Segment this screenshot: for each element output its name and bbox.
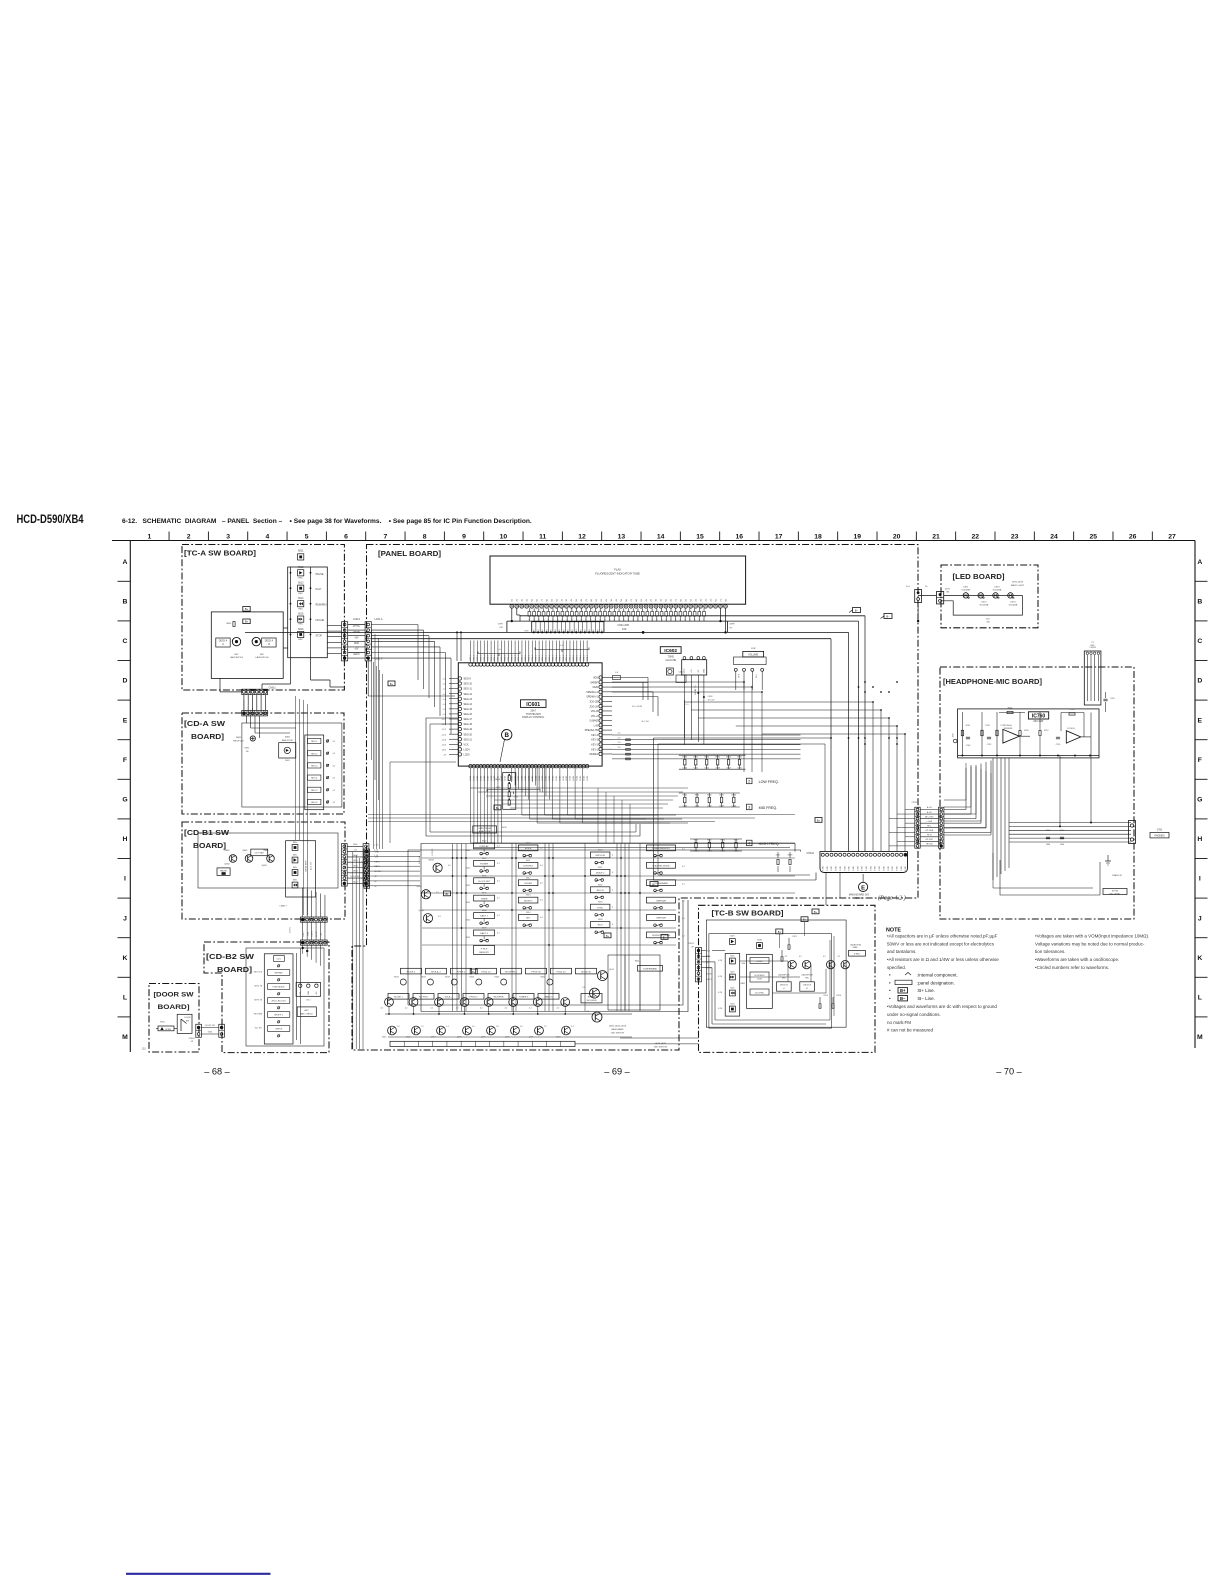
svg-text:TUNER 5: TUNER 5 <box>519 997 529 999</box>
switch CD-B1 cell <box>292 870 298 876</box>
svg-text:KEY-3: KEY-3 <box>591 739 598 742</box>
frame left border <box>129 541 131 1053</box>
svg-text:SRD-1: SRD-1 <box>549 655 551 661</box>
svg-text:4G: 4G <box>661 598 663 601</box>
wire loop around IC601 lower left inner <box>430 724 636 832</box>
svg-text:CH#: CH# <box>524 630 529 632</box>
svg-text:S612: S612 <box>298 567 304 569</box>
svg-text:FF/CUE: FF/CUE <box>316 619 325 622</box>
svg-text:17: 17 <box>775 534 783 541</box>
svg-text:KEY6: KEY6 <box>353 865 359 867</box>
svg-text:PAUSE: PAUSE <box>220 870 228 873</box>
wire DECK A box to switch column <box>283 627 288 629</box>
svg-text:DAILY 2: DAILY 2 <box>480 932 489 935</box>
boxed tag B- near rails right <box>853 608 861 613</box>
svg-text:P.B.A. 20: P.B.A. 20 <box>482 970 492 973</box>
svg-text:under no-signal conditions.: under no-signal conditions. <box>887 1012 941 1017</box>
svg-text:SRD-1: SRD-1 <box>491 655 493 661</box>
wires tca bottom into left bus <box>243 700 245 716</box>
svg-text:BOARD]: BOARD] <box>191 734 224 741</box>
svg-text:B−: B− <box>855 610 859 613</box>
svg-text:4.2: 4.2 <box>333 741 336 743</box>
svg-text:HP-GNT: HP-GNT <box>925 839 933 841</box>
svg-text:4.2: 4.2 <box>682 918 685 920</box>
switch S686 CD-A <box>326 776 328 778</box>
svg-text:1G: 1G <box>512 598 514 601</box>
wires TC-A to panel connector bus <box>348 624 365 626</box>
svg-text:[HEADPHONE-MIC BOARD]: [HEADPHONE-MIC BOARD] <box>943 679 1042 686</box>
svg-text:CD SYNC: CD SYNC <box>755 992 765 994</box>
vertical bus wires to CN641 <box>684 701 873 703</box>
small components below high freq network <box>777 860 779 865</box>
CD-B1 wire loop <box>198 833 338 888</box>
svg-text:S614: S614 <box>526 912 530 914</box>
panel bottom left connector column <box>364 849 370 888</box>
IC601 left pin stub wires <box>449 678 458 680</box>
svg-text:8G: 8G <box>725 598 727 601</box>
switch CD-B1 cell <box>292 857 298 863</box>
svg-text:4G: 4G <box>571 598 573 601</box>
svg-text:SEG-12: SEG-12 <box>464 693 473 696</box>
boxed waveform ref 3 <box>747 804 753 810</box>
svg-text:Q616: Q616 <box>406 1037 411 1039</box>
CD-A wire loop <box>242 723 342 807</box>
svg-text:KNA550 W: KNA550 W <box>1112 874 1122 877</box>
LED limiter resistor column <box>503 773 516 810</box>
grid row letters left <box>122 559 128 1041</box>
transistor Q616 mid row <box>533 998 542 1007</box>
svg-text:J: J <box>123 915 127 922</box>
svg-text:KEY-1: KEY-1 <box>591 748 598 751</box>
svg-text:ABC CHECK: ABC CHECK <box>301 1012 314 1015</box>
svg-text:[DOOR SW: [DOOR SW <box>154 992 195 999</box>
switch TC-B col1 cell <box>730 990 736 996</box>
svg-text:LED SWITCH: LED SWITCH <box>654 1047 668 1049</box>
svg-text:tion tolerances.: tion tolerances. <box>1035 949 1066 954</box>
svg-text:DECK B: DECK B <box>780 985 788 987</box>
svg-text:CN611: CN611 <box>269 687 277 690</box>
TC-B switch column 1 <box>725 954 740 1017</box>
emitter rail under mid transistors <box>385 1013 632 1015</box>
svg-text:RV760: RV760 <box>1112 891 1119 893</box>
svg-text:SRD-1: SRD-1 <box>566 655 568 661</box>
left bus vertical wires upper <box>295 696 297 840</box>
svg-text:B: B <box>123 599 128 606</box>
svg-text:LCD4: LCD4 <box>464 748 471 751</box>
junction dot LED5 pin <box>343 657 346 660</box>
key matrix column B labeled keys <box>518 845 538 851</box>
svg-text:LAUDSPOLE: LAUDSPOLE <box>230 656 244 659</box>
svg-text:7G: 7G <box>586 598 588 601</box>
svg-text:R764: R764 <box>1008 708 1013 710</box>
board outline TC-B SW BOARD <box>699 905 876 1052</box>
svg-text:S69x: S69x <box>293 867 297 869</box>
svg-text:CN94 1: CN94 1 <box>189 1038 197 1040</box>
svg-text:C761: C761 <box>1000 725 1005 727</box>
svg-text:L: L <box>123 995 127 1002</box>
svg-text:B−: B− <box>900 996 906 1001</box>
svg-text:KEY2: KEY2 <box>303 932 305 937</box>
svg-text:SRD-1: SRD-1 <box>580 655 582 661</box>
svg-text:MODE 2: MODE 2 <box>407 971 416 973</box>
IC602 block with pins <box>682 660 707 675</box>
svg-text:● REC: ● REC <box>756 960 763 963</box>
svg-text:R645: R645 <box>737 757 742 759</box>
svg-text:9G: 9G <box>596 598 598 601</box>
svg-text:5.6+ OH 93: 5.6+ OH 93 <box>632 706 643 708</box>
svg-text:POWER: POWER <box>480 864 489 866</box>
svg-text:SRD-1: SRD-1 <box>522 655 524 661</box>
svg-text:GND: GND <box>354 643 359 645</box>
svg-text:DECK A: DECK A <box>265 640 274 643</box>
svg-text:4G: 4G <box>527 598 529 601</box>
key switch colA DAILY 2 <box>480 939 483 942</box>
svg-text:4G: 4G <box>616 598 618 601</box>
svg-text:CHECK: CHECK <box>275 1029 283 1031</box>
svg-text:SW: SW <box>186 1020 189 1022</box>
switch S616 <box>298 631 304 637</box>
svg-text:LED 5: LED 5 <box>353 654 360 656</box>
svg-text:2G: 2G <box>561 598 563 601</box>
svg-text:CLOCK SET: CLOCK SET <box>478 881 491 883</box>
svg-text:2.0: 2.0 <box>520 1026 523 1028</box>
svg-text:MIC-GNT: MIC-GNT <box>925 816 934 818</box>
svg-text:R642: R642 <box>704 757 709 759</box>
svg-text:C765: C765 <box>1056 744 1061 746</box>
transistor Q472 TC-B <box>802 960 810 968</box>
svg-text:5.0MHZ: 5.0MHZ <box>589 720 598 723</box>
svg-text:LED5: LED5 <box>707 968 713 970</box>
connector LC615 panel side <box>365 622 371 661</box>
grid row letters right <box>1197 559 1203 1041</box>
svg-text:SRD-1: SRD-1 <box>508 655 510 661</box>
svg-text:REC-3: REC-3 <box>311 766 318 768</box>
switch CD-B1 cell <box>292 845 298 851</box>
svg-text:•All resistors are in Ω and 1/: •All resistors are in Ω and 1/4W or less… <box>887 957 999 962</box>
KEY wires from IC601 to right bus <box>612 734 801 736</box>
svg-text:S630: S630 <box>598 850 602 852</box>
svg-text:1000: 1000 <box>1046 844 1050 846</box>
svg-text:7G: 7G <box>720 598 722 601</box>
board outline CD-B1 SW BOARD <box>182 822 345 919</box>
connector C641-605 cell strip <box>532 622 604 633</box>
svg-text:5G: 5G <box>621 598 623 601</box>
small resistors on KEY lines <box>626 739 631 741</box>
svg-text:G: G <box>1197 797 1202 804</box>
svg-text:C766: C766 <box>1046 830 1051 832</box>
svg-text:S-RD: S-RD <box>870 866 872 871</box>
low frequency filter network <box>679 752 746 772</box>
svg-text:S69x: S69x <box>293 880 297 882</box>
svg-text:[CD-A SW: [CD-A SW <box>184 721 225 728</box>
svg-text:6G: 6G <box>626 598 628 601</box>
svg-text:8: 8 <box>423 534 427 541</box>
wire horizontal mid panel <box>390 761 456 763</box>
svg-text:S-RD: S-RD <box>857 866 859 871</box>
headphone extra components <box>1019 731 1021 736</box>
svg-text::B+ Line.: :B+ Line. <box>917 988 935 993</box>
svg-text:4.2: 4.2 <box>682 883 685 885</box>
svg-text:KEY8: KEY8 <box>353 871 359 873</box>
solder dots under connector strip <box>533 631 535 633</box>
svg-text:GHH: GHH <box>730 624 735 626</box>
svg-text:R644: R644 <box>726 757 731 759</box>
bus rail lower y632.5 with end posts <box>506 621 508 632</box>
svg-text:S-RD: S-RD <box>883 866 885 871</box>
svg-text:Q615: Q615 <box>382 1037 387 1039</box>
svg-text:Q604: Q604 <box>428 860 434 862</box>
svg-text:3G: 3G <box>566 598 568 601</box>
svg-text:REC-B: REC-B <box>597 890 604 892</box>
svg-text:S.B.A. 2: S.B.A. 2 <box>444 996 453 999</box>
wires door to panel connector <box>201 1027 218 1029</box>
svg-text:22: 22 <box>972 534 980 541</box>
svg-text:S47x: S47x <box>730 1004 734 1006</box>
transistor Q620 bottom row <box>388 1026 397 1035</box>
svg-text:MIC: MIC <box>953 733 955 737</box>
svg-text:S69x: S69x <box>293 842 297 844</box>
svg-text:MODE 40: MODE 40 <box>581 971 591 973</box>
switch TC-B col1 cell <box>730 974 736 980</box>
FL tube pin stubs and labels <box>528 608 530 611</box>
svg-text:SEG-17: SEG-17 <box>464 718 473 721</box>
svg-text:S47x: S47x <box>730 972 734 974</box>
svg-text:REC-1: REC-1 <box>311 741 318 743</box>
IC602 output wires down <box>683 675 685 738</box>
svg-text:2G: 2G <box>651 598 653 601</box>
transistor Q612 mid row <box>435 998 444 1007</box>
svg-text:R643: R643 <box>719 795 724 797</box>
switch S687 CD-A <box>326 789 328 791</box>
wires CD-B2 top connectors <box>302 945 304 954</box>
svg-text:# can not be measured: # can not be measured <box>887 1028 934 1033</box>
svg-text:SHUFF 1: SHUFF 1 <box>274 1015 284 1017</box>
FL pins right stubs to rail <box>720 608 722 621</box>
svg-text:B+: B+ <box>245 607 249 611</box>
board outline HEADPHONE-MIC BOARD <box>940 667 1134 919</box>
svg-text:HCD-D590/XB4: HCD-D590/XB4 <box>17 512 84 526</box>
svg-text:2: 2 <box>187 534 191 541</box>
svg-text:DOOR: DOOR <box>185 1017 192 1019</box>
svg-text:SEG-21: SEG-21 <box>464 738 473 741</box>
svg-text:REC: REC <box>298 577 303 579</box>
svg-text:– 68 –: – 68 – <box>204 1067 230 1077</box>
svg-text:L 5HB: L 5HB <box>927 821 933 823</box>
svg-text:B+: B+ <box>496 807 500 810</box>
switch S942 CD-B2 <box>268 970 290 976</box>
svg-text:P.B.A. 40: P.B.A. 40 <box>557 970 567 973</box>
svg-text:TONE: TONE <box>668 657 675 659</box>
svg-text:G: G <box>122 797 127 804</box>
svg-text:KL5426B: KL5426B <box>993 590 1002 592</box>
svg-text:LED6: LED6 <box>707 973 713 975</box>
svg-text:CN751: CN751 <box>912 802 920 804</box>
svg-text:IC602: IC602 <box>664 648 677 654</box>
CD-B2 inner wire rect <box>246 948 324 1046</box>
svg-text:[TC-B SW BOARD]: [TC-B SW BOARD] <box>712 911 784 918</box>
svg-text:1.2: 1.2 <box>421 1026 424 1028</box>
SVR volume block <box>743 651 764 657</box>
svg-text:D673: D673 <box>995 587 1001 589</box>
svg-text:SEG-10: SEG-10 <box>464 683 473 686</box>
key switch colA DISPLAY <box>480 852 483 855</box>
svg-text:C767: C767 <box>1060 830 1065 832</box>
svg-text:A: A <box>123 559 128 566</box>
svg-text:KEY1: KEY1 <box>707 979 713 981</box>
key switch colA TIMER <box>480 905 483 908</box>
svg-text:SEG-20: SEG-20 <box>464 733 473 736</box>
long left vertical bus wires <box>352 852 354 1049</box>
transistor Q627 bottom row <box>562 1026 571 1035</box>
wire loop around filter networks inner <box>657 744 659 875</box>
svg-text:LED1: LED1 <box>570 776 572 781</box>
svg-text:R641: R641 <box>695 795 700 797</box>
svg-text:4.2: 4.2 <box>497 880 500 882</box>
wires matrix left connector stubs <box>370 851 420 853</box>
svg-text:Q621: Q621 <box>529 1037 534 1039</box>
connector CD-B1 right pair <box>341 844 347 886</box>
svg-text:1: 1 <box>148 534 152 541</box>
svg-text:6G: 6G <box>671 598 673 601</box>
switch TC-B col1 cell <box>730 958 736 964</box>
svg-text::internal component.: :internal component. <box>917 973 958 978</box>
svg-text:D671: D671 <box>963 587 969 589</box>
FL pins 1-2 left stubs to rail <box>511 608 513 621</box>
op-amp IC760a <box>1003 729 1019 743</box>
svg-text:4.2: 4.2 <box>505 1008 508 1010</box>
svg-text:C643: C643 <box>715 768 720 770</box>
LED D671 <box>963 593 968 598</box>
transistor Q624 bottom row <box>487 1026 496 1035</box>
svg-text:1G: 1G <box>601 598 603 601</box>
svg-text:LAUDSPOLE: LAUDSPOLE <box>801 974 813 977</box>
connector CN681 CD-A top <box>242 711 268 716</box>
switch S941 CD-B2 <box>274 956 285 962</box>
wires bus verticals to panel edge connector <box>905 809 915 811</box>
svg-text:S-RD: S-RD <box>905 866 907 871</box>
svg-text:LED2: LED2 <box>353 855 359 857</box>
DECK B boxes <box>777 982 792 991</box>
svg-text:L: L <box>1198 995 1202 1002</box>
svg-text:GND: GND <box>208 1031 213 1033</box>
svg-text:LC61 A: LC61 A <box>375 618 383 621</box>
wires panel left vertical bundle <box>373 662 375 849</box>
svg-text:VOL-A: VOL-A <box>591 715 599 718</box>
svg-text:S69x: S69x <box>293 855 297 857</box>
svg-text:4.2: 4.2 <box>405 1008 408 1010</box>
jack MIC B <box>252 637 260 645</box>
svg-text:B: B <box>1197 599 1202 606</box>
svg-text:LED1: LED1 <box>563 776 565 781</box>
svg-text:STOP: STOP <box>316 635 323 638</box>
svg-text:NJM4558: NJM4558 <box>1004 728 1013 730</box>
boxed tag B- below loop <box>650 882 658 887</box>
svg-text:S632: S632 <box>598 884 602 886</box>
TC-B HI SPEED DUB box <box>750 972 769 982</box>
headphone amp outputs down to jack bus <box>1090 737 1092 823</box>
svg-text:LED1: LED1 <box>566 776 568 781</box>
svg-text:K: K <box>1197 955 1202 962</box>
svg-text:GND: GND <box>353 844 358 846</box>
svg-text:SPECTRUM: SPECTRUM <box>478 828 490 830</box>
svg-text:B+: B+ <box>472 971 476 974</box>
door open label box <box>158 1026 174 1031</box>
svg-text:GND: GND <box>308 990 310 995</box>
svg-text:•Circled numbers refer to wave: •Circled numbers refer to waveforms. <box>1035 965 1109 970</box>
svg-text:•Voltages are taken with a VOM: •Voltages are taken with a VOM(Input imp… <box>1035 934 1149 939</box>
svg-text:WTYA: WTYA <box>353 625 360 628</box>
wires IC601 bottom pins down <box>470 768 472 788</box>
board outline DOOR SW BOARD <box>149 984 199 1053</box>
lower matrix labeled boxes row1 <box>388 994 409 1000</box>
vertical stubs routing to matrix <box>597 788 599 843</box>
svg-text:MIC LEVEL: MIC LEVEL <box>1110 894 1122 896</box>
svg-text:CN68 7: CN68 7 <box>279 906 287 908</box>
svg-text:-C: -C <box>222 644 225 646</box>
svg-text:6G: 6G <box>581 598 583 601</box>
svg-text:S4B8: S4B8 <box>853 947 858 949</box>
svg-text:R643: R643 <box>734 840 739 842</box>
junction dot CD-B2 <box>302 947 304 949</box>
svg-text:9: 9 <box>462 534 466 541</box>
wire from rail up to LED connector <box>917 603 919 622</box>
svg-text:4.2: 4.2 <box>557 1008 560 1010</box>
bus rail third y638.7 <box>371 638 831 640</box>
svg-text:4.2: 4.2 <box>333 778 336 780</box>
wires LC615 bus into panel with downturns <box>371 624 418 626</box>
svg-text:TAPE A/B: TAPE A/B <box>656 917 666 920</box>
svg-text:-24.1: -24.1 <box>514 797 520 799</box>
headphone inner amp block <box>958 709 1099 758</box>
svg-text:4.2: 4.2 <box>333 753 336 755</box>
svg-text:ON: ON <box>946 592 950 594</box>
svg-text:HI SPEED: HI SPEED <box>755 975 765 977</box>
svg-text:4.4: 4.4 <box>540 900 543 902</box>
svg-text:KEY4: KEY4 <box>375 861 381 863</box>
svg-text:CHH: CHH <box>498 624 503 626</box>
LED return wire loop <box>940 595 1022 615</box>
SUPER WOOFER box <box>581 994 602 1003</box>
switch S944 CD-B2 <box>268 998 290 1004</box>
svg-text:F: F <box>123 757 127 764</box>
svg-text:8G: 8G <box>591 598 593 601</box>
svg-text:WOOFER: WOOFER <box>494 997 504 999</box>
svg-text:SRD-1: SRD-1 <box>529 655 531 661</box>
svg-text:Q617: Q617 <box>431 1037 436 1039</box>
svg-text:7G: 7G <box>631 598 633 601</box>
resistor network right of VDD pins <box>612 677 648 679</box>
svg-text:1000: 1000 <box>1060 844 1064 846</box>
svg-text:DISPLAY CONTROL: DISPLAY CONTROL <box>522 716 545 719</box>
svg-text:P.FILE 2: P.FILE 2 <box>469 997 478 999</box>
svg-text:SRD-1: SRD-1 <box>535 655 537 661</box>
IC602 part label <box>660 647 681 654</box>
svg-text:B+: B+ <box>390 683 394 686</box>
panel side door connector <box>219 1024 225 1037</box>
svg-text:24: 24 <box>1050 534 1058 541</box>
svg-text:C641-605: C641-605 <box>618 623 630 627</box>
svg-text:4.2: 4.2 <box>682 936 685 938</box>
boxed waveform ref 2 <box>747 778 753 784</box>
headphone wires to jack <box>1009 822 1131 824</box>
svg-text:7: 7 <box>384 534 388 541</box>
svg-text:B−: B− <box>886 616 890 619</box>
svg-text:LOW FREQ.: LOW FREQ. <box>759 780 779 784</box>
svg-text:B+: B+ <box>245 620 249 624</box>
svg-text:12: 12 <box>578 534 586 541</box>
svg-text:R473: R473 <box>824 995 829 997</box>
svg-text:ENTER: ENTER <box>524 883 532 885</box>
